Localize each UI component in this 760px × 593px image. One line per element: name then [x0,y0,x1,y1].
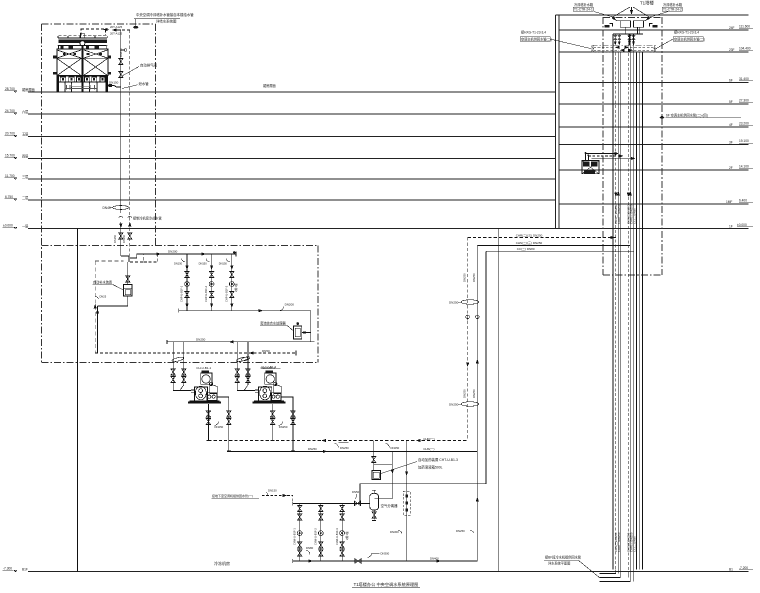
plant room upper section [93,250,315,369]
dosing feed line [374,451,393,498]
flex connectors [119,217,124,218]
svg-text:-7.300: -7.300 [3,567,12,571]
svg-text:6.400: 6.400 [739,199,747,203]
svg-text:DN150: DN150 [119,48,123,57]
svg-text:CHS(二)(三) DN250: CHS(二)(三) DN250 [516,241,543,245]
svg-text:泄水管: 泄水管 [139,81,150,86]
riser pipe 3 [617,52,619,573]
branch CHW-3 [335,503,349,561]
svg-text:冷却塔补水箱: 冷却塔补水箱 [574,2,594,7]
boundary dash-dot machine room right [317,246,319,363]
tank outlet pipes [624,27,626,34]
svg-text:CC(二)DN80: CC(二)DN80 [633,536,637,552]
basement plant assembly [78,229,478,572]
svg-text:DN150: DN150 [113,234,117,243]
svg-text:11.700: 11.700 [5,174,15,178]
svg-text:4F: 4F [729,123,733,127]
small bypass pump [241,356,251,362]
svg-text:DN300: DN300 [381,552,390,556]
floor line podium 3F [28,178,556,180]
pump CH-U-B1-2 [235,342,295,452]
svg-text:CHR(二)DN250: CHR(二)DN250 [617,532,621,552]
svg-text:CHW-U-B1F-2: CHW-U-B1F-2 [314,528,318,545]
svg-text:20.700: 20.700 [5,132,15,136]
floor line tower 2F [559,169,749,171]
svg-text:空调主机供回水管(二): 空调主机供回水管(二) [521,36,552,41]
svg-text:CH-U-B1-2: CH-U-B1-2 [261,366,276,370]
discharge drops [272,404,274,441]
elevation label 23F right [729,47,753,53]
svg-text:DN150: DN150 [199,261,208,265]
svg-text:DN150: DN150 [109,81,119,85]
bypass water treatment loop [310,311,312,342]
flow arrows on risers [615,193,617,196]
make-up tank 2 [634,21,644,27]
riser name labels upper (vertical) [614,204,637,224]
size tag on CHS drop [470,530,474,533]
boundary dash-dot top of tower enclosure [42,23,156,25]
pipe CHR dashed horizontal [468,237,616,239]
svg-text:DN400: DN400 [430,557,439,561]
leader lines from label to tanks [613,7,631,17]
butterfly valve DN250 lower [461,402,479,406]
svg-text:24F: 24F [729,26,735,30]
floor line podium 4F [28,158,556,160]
boundary dash-dot riser shaft top [603,17,662,19]
svg-text:28.700: 28.700 [5,87,15,91]
handrail [58,37,107,39]
riser pipe 7 [633,34,635,582]
elevation label 11.700 [5,174,29,180]
svg-text:DN50: DN50 [352,490,360,494]
svg-text:2用1备: 2用1备 [234,283,238,292]
valve cluster branch 2 [199,254,214,311]
svg-text:B1: B1 [729,568,733,572]
make-up device branch [127,262,129,284]
leader to drain label [122,85,138,89]
svg-text:CHR(二)(三) DN250: CHR(二)(三) DN250 [516,233,543,237]
boundary dash-dot machine room top [42,245,319,247]
vertical CHR dashed [467,238,469,441]
svg-text:详水系统平面图: 详水系统平面图 [548,560,570,565]
svg-text:DN150: DN150 [122,234,126,243]
svg-text:中央空调冷却塔补水管接自本楼给水管: 中央空调冷却塔补水管接自本楼给水管 [136,12,194,17]
floor line tower 23F [559,51,749,53]
svg-text:DN250: DN250 [308,447,317,451]
svg-text:CHP-U-B1F-1: CHP-U-B1F-1 [180,285,184,302]
svg-text:-7.200: -7.200 [739,566,748,570]
svg-text:5F: 5F [729,100,733,104]
svg-text:六层: 六层 [22,109,28,114]
riser pipe 2 dashed [615,52,617,573]
pipe CHS solid horizontal [477,244,630,246]
valve on CWS [119,59,123,65]
svg-text:接HXG-T1-23-3,4: 接HXG-T1-23-3,4 [521,30,546,35]
riser pipe 9 [638,52,640,569]
svg-text:详给水系统图: 详给水系统图 [156,19,177,24]
svg-text:自动补水装置: 自动补水装置 [93,279,112,284]
elevation label -7.300 basement [3,567,28,573]
valve cluster branch 3 [219,254,238,311]
svg-text:自动加药装置 CHT-U-B1-3: 自动加药装置 CHT-U-B1-3 [418,457,458,462]
svg-text:±0.000: ±0.000 [3,224,13,228]
butterfly valves below 1F [119,233,123,239]
leader to air vent label [122,67,139,77]
svg-text:6F 空调主机供回水管(二)-(四): 6F 空调主机供回水管(二)-(四) [666,112,708,117]
svg-text:DN250: DN250 [456,529,465,533]
svg-text:T1塔楼办公 中央空调水系统原理图: T1塔楼办公 中央空调水系统原理图 [354,581,419,588]
title text [214,560,420,588]
boundary dash-dot riser shaft left [602,17,604,275]
CHS continues with arrow [476,498,478,501]
svg-text:DN250: DN250 [472,389,476,398]
legs [57,76,59,92]
svg-text:23.200: 23.200 [739,122,749,126]
elevation label B1 right [729,566,753,572]
right side labels [520,30,741,120]
svg-text:2F: 2F [729,166,733,170]
elevation label 6F right [729,77,753,83]
svg-text:CHR(一): CHR(一) [423,437,435,441]
svg-text:三层: 三层 [22,174,28,179]
riser header on 24F [613,33,643,35]
riser pipe 6 [629,34,631,582]
float valves [613,17,621,21]
AHU body [582,161,599,174]
suction drop pipes [173,342,191,391]
svg-text:DN250: DN250 [472,273,476,282]
dashed branch pipes in band [594,46,615,48]
floor line tower roof [556,14,749,16]
svg-text:23F: 23F [729,48,735,52]
elbows into plant room [121,256,129,262]
AHU unit on 2F [582,152,635,174]
svg-text:3F: 3F [729,141,733,145]
pump discharge header solid CHS [229,450,477,452]
svg-text:6.750: 6.750 [5,195,13,199]
basement elbows to plant [599,573,615,575]
riser name labels lower (vertical) [614,532,637,552]
floor line tower 6F [559,82,749,84]
sump piping [65,84,97,89]
elevation label 3F right [729,139,753,145]
svg-text:二层: 二层 [22,195,28,200]
dashed control line [172,352,296,354]
strainer on vertical [406,441,408,562]
main distribution pipes 1F [360,229,634,572]
svg-text:T1塔楼: T1塔楼 [640,0,655,7]
air separator [370,490,398,520]
label 6F branch note [659,112,741,119]
svg-text:接制冷机房冷却水管: 接制冷机房冷却水管 [133,216,162,221]
pump discharge header dashed CHR [208,440,467,442]
discharge drops [207,404,209,441]
svg-text:裙房屋面: 裙房屋面 [263,83,276,88]
svg-text:111.600: 111.600 [739,25,750,29]
branch band dash-dot box on 23F [592,45,656,52]
make-up tank 1 [620,21,630,27]
svg-text:CHP-U-B1F-3: CHP-U-B1F-3 [224,285,228,302]
svg-text:104.400: 104.400 [739,47,751,51]
fan motor dashed enclosure [81,29,106,35]
header top of valve cluster [144,253,236,255]
elevation label 4F right [729,122,753,128]
svg-text:DN250: DN250 [196,337,206,341]
feed pump left [605,25,610,28]
svg-text:T1-CTR-24-2: T1-CTR-24-2 [663,8,682,12]
top connection arrows [113,29,121,31]
svg-text:DN150: DN150 [174,261,183,265]
chemical dosing branch [373,441,375,471]
svg-text:DN300: DN300 [390,530,399,534]
svg-text:15.700: 15.700 [5,154,15,158]
big X braces [57,59,81,76]
eliminator rail [58,44,108,46]
svg-text:四层: 四层 [22,154,28,159]
elevation label 1MF right [726,199,753,205]
svg-text:DN50: DN50 [262,349,270,353]
wall line between podium and tower [555,15,557,229]
floor line tower 1MF [559,203,749,205]
branch CHW-1 [293,503,303,561]
T1 tower roof tank assembly [573,0,683,34]
svg-text:14.100: 14.100 [739,165,749,169]
svg-text:接地下室空调机组供回水管(一): 接地下室空调机组供回水管(一) [212,493,253,498]
upper band X braces [57,50,81,58]
svg-text:CHS(一): CHS(一) [423,447,434,451]
svg-text:1MF: 1MF [726,200,732,204]
svg-text:加药溶液箱500L: 加药溶液箱500L [418,465,443,470]
floor line basement B1 [28,571,749,573]
svg-text:CC(二)DN80: CC(二)DN80 [633,208,637,224]
svg-text:DN150: DN150 [268,489,277,493]
automatic make-up device [124,284,133,296]
cooling pipes elbow into header [129,254,144,262]
riser pipe 8 [636,52,638,569]
cooling tower CT-1 [53,29,121,92]
suction manifold [167,341,315,343]
elevation label 6.750 [5,195,29,201]
elevation label 20.700 [5,132,29,138]
svg-text:空气分离器: 空气分离器 [381,503,399,508]
svg-text:CHW-U-B1F-1: CHW-U-B1F-1 [293,528,297,545]
svg-text:CC(二) DN80: CC(二) DN80 [517,247,535,251]
elevation label 5F right [729,99,753,105]
vertical CC [360,251,486,504]
tower outlet elbow to riser [108,86,121,88]
label tank 1 [573,2,594,11]
svg-text:CHP-U-B1F-2: CHP-U-B1F-2 [204,285,208,302]
label riser connection right [656,30,705,49]
svg-text:DN250: DN250 [449,403,459,407]
elevation label 28.700 roof [5,87,35,93]
svg-text:DN250: DN250 [391,446,400,450]
pressure gauge CHS [476,315,480,320]
svg-text:31.400: 31.400 [739,77,749,81]
floor line podium 2F [28,199,556,201]
label to basement units [544,555,599,578]
svg-text:旁流综合水处理器: 旁流综合水处理器 [260,321,286,326]
svg-text:20T-A125: 20T-A125 [110,25,123,29]
make-up outlet down to suction [98,296,128,306]
floor line podium 6F [28,113,556,115]
boundary dash-dot left vertical [41,24,43,364]
feed pump right [653,25,658,28]
svg-text:DN250: DN250 [462,273,466,282]
butterfly valve DN250 upper [461,300,479,304]
pipe labels [516,233,543,251]
svg-text:DN250: DN250 [462,389,466,398]
svg-text:DN40: DN40 [103,206,111,210]
header bottom of valve cluster [179,310,311,312]
svg-text:DN250: DN250 [279,425,288,429]
elevation label 24.700 [5,109,29,115]
ground floor drop at gridline [498,229,500,572]
floor line podium 5F [28,136,556,138]
svg-text:DN250: DN250 [449,301,459,305]
chilled water pumps [171,342,477,453]
fan cowls dark band [59,41,83,43]
svg-text:DN200: DN200 [168,250,178,254]
svg-text:DN80: DN80 [306,546,314,550]
svg-text:T1-CTR-24-1: T1-CTR-24-1 [574,8,593,12]
pipe CWR vertical dashed [129,30,131,262]
floor line tower 4F [559,126,749,128]
floor line tower 24F [559,29,749,31]
riser pipe 5 dashed [627,34,629,578]
bottom manifold [293,560,478,562]
riser pipe 4 [619,52,621,577]
suction drop pipes [237,342,255,391]
pipe CWS vertical solid [120,30,122,213]
svg-text:接HXG-T1-23-3,4: 接HXG-T1-23-3,4 [674,30,699,35]
svg-text:CHR(二)DN250: CHR(二)DN250 [617,204,621,224]
svg-text:27.300: 27.300 [739,99,749,103]
svg-text:DN150: DN150 [219,261,228,265]
svg-text:2用1备: 2用1备 [345,531,349,540]
riser shaft pipes [544,34,656,582]
pump CH-U-B1-1 [171,342,231,452]
floor line tower 5F [559,103,749,105]
basin louvers [57,75,108,77]
svg-text:空调主机供回水管(二): 空调主机供回水管(二) [674,36,705,41]
boundary dash-dot machine room bottom [42,362,319,364]
floor line podium roof 28.700 [28,91,556,93]
flow arrows [120,224,122,227]
svg-text:±0.000: ±0.000 [737,223,747,227]
svg-text:DN250: DN250 [215,425,224,429]
svg-text:20T-A125: 20T-A125 [110,31,123,35]
svg-text:接BF段冷水机组供回水管: 接BF段冷水机组供回水管 [545,555,581,560]
flow meter on CWS [113,206,129,210]
svg-text:五层: 五层 [22,132,28,137]
pipe CC solid horizontal [486,250,634,252]
elevation label 0.000 ground [3,224,29,230]
valve cluster branch 1 [174,254,189,311]
tower body frame [57,49,108,75]
svg-text:一层: 一层 [22,224,28,229]
svg-text:24.700: 24.700 [5,109,15,113]
label riser connection left [520,30,592,49]
dosing label [418,457,458,470]
boundary dash-dot riser shaft bottom [603,274,662,276]
elevation label 24F right [729,25,753,31]
make-up riser arrow on dashed edge [94,305,96,308]
riser pipe 10 [642,52,644,569]
elevation label 1F right [729,223,753,229]
inner dashed enclosure [95,261,124,353]
svg-text:DN250: DN250 [340,446,349,450]
cooling tower risers CWS/CWR [103,12,195,262]
svg-text:CH-U-B1-1: CH-U-B1-1 [196,366,211,370]
floor line 1F ground [28,228,749,230]
boundary dash-dot vertical right of cooling tower [154,24,156,246]
svg-text:1F: 1F [729,225,733,229]
treatment device [294,326,302,339]
basement left riser [77,229,79,572]
svg-text:6F: 6F [729,79,733,83]
svg-text:CHW-U-B1F-3: CHW-U-B1F-3 [335,528,339,545]
svg-text:19.100: 19.100 [739,139,749,143]
fan deck dashed line [59,34,107,36]
svg-text:DN25: DN25 [100,295,107,299]
riser stub valves [614,34,636,45]
branch to basement AHUs [262,496,293,504]
svg-text:B1F: B1F [22,568,28,572]
boundary dash-dot riser shaft right [661,17,663,275]
svg-text:冷冻机房: 冷冻机房 [214,560,230,566]
vertical CHS [476,245,478,561]
svg-text:裙房屋面: 裙房屋面 [22,87,35,92]
svg-text:冷却塔补水箱: 冷却塔补水箱 [663,2,683,7]
riser pipe 1 [612,34,614,570]
label tank 2 [662,2,683,11]
pipe size tags rotated [462,273,476,398]
dosing tank [372,471,381,480]
branch CHW-2 [306,503,323,561]
svg-text:自动排气阀: 自动排气阀 [140,63,158,68]
AHU pipes to risers [586,154,589,161]
flow arrows [467,363,469,366]
center stack [81,33,85,38]
elevation label 2F right [729,165,753,171]
svg-text:DN200: DN200 [285,303,295,307]
pressure gauge CHR [466,315,470,320]
header to air separator [293,502,370,504]
elevation label 15.700 [5,154,29,160]
floor line tower 3F [559,144,749,146]
